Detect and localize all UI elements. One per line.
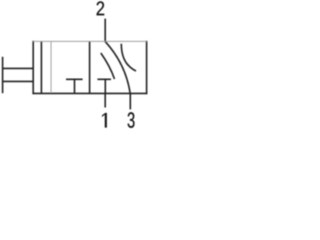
label port 2 — [97, 1, 105, 15]
push-button rod upper — [2, 67, 34, 69]
valve body bottom edge — [32, 92, 147, 94]
flow arrow barb right — [121, 44, 136, 71]
flow arrow barb left — [101, 53, 115, 79]
left square blocked port T bar — [66, 78, 83, 80]
valve body top edge — [33, 40, 147, 42]
flow arc 2-3 shaft — [105, 41, 130, 93]
push-button actuator plate — [2, 57, 4, 93]
valve body right edge — [146, 41, 148, 94]
valve body left edge — [32, 41, 34, 94]
actuator stem line — [40, 41, 42, 93]
label port 3 — [128, 112, 135, 128]
port 1 line — [104, 93, 106, 107]
port 2 line — [104, 19, 106, 42]
port 3 line — [129, 93, 131, 109]
push-button rod lower — [2, 80, 34, 82]
right square blocked port 1 T bar — [97, 78, 111, 80]
position divider — [89, 41, 91, 93]
label port 1 — [102, 113, 107, 128]
actuated position flow line 1-2 — [50, 42, 52, 94]
left square blocked port T stem — [74, 79, 76, 93]
right square blocked port 1 T stem — [104, 79, 106, 93]
